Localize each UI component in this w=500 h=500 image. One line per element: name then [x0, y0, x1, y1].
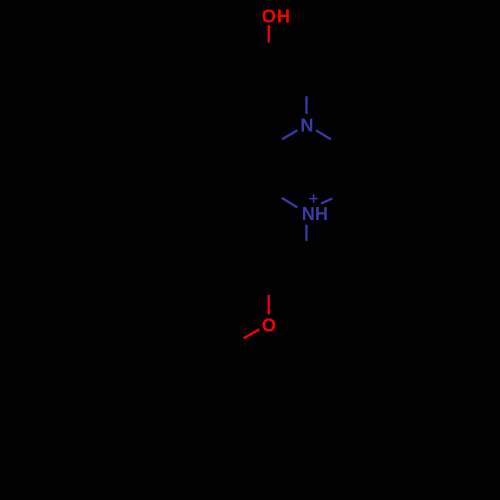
svg-text:O: O [262, 6, 276, 26]
wire: bond C2-N1 blue half [305, 96, 307, 114]
svg-text:H: H [277, 6, 290, 26]
wire: bond N1-C(upper-left) blue half [282, 130, 297, 139]
wire: bond O-C1 red half [268, 25, 270, 42]
wire: bond C4-O2 red half [268, 295, 270, 315]
svg-text:N: N [300, 116, 313, 136]
svg-text:O: O [262, 315, 276, 335]
charge plus sign [309, 198, 317, 200]
wire: bond N1-C(upper-right) blue half [316, 130, 331, 139]
wire: bond C(lower-right)-N2 blue half [321, 199, 332, 204]
svg-text:NH: NH [302, 204, 328, 224]
wire: bond C(lower-left)-N2 blue half [282, 198, 298, 208]
wire: bond N2-C3 blue half [305, 225, 307, 241]
wire: bond O2-C5 red half [244, 329, 260, 338]
